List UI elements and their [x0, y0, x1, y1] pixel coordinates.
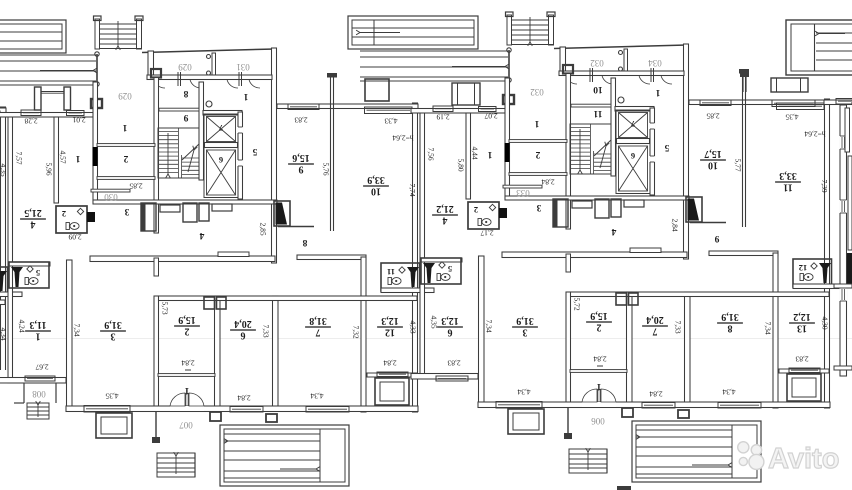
- svg-text:033: 033: [516, 188, 530, 198]
- wall rooms 3/2 lower: [154, 296, 159, 410]
- svg-text:029: 029: [178, 62, 192, 72]
- tambour top wall: [142, 49, 275, 53]
- lower wing top wall: [159, 296, 418, 301]
- room1big bottom / elevator top: [203, 111, 242, 116]
- svg-text:4,34: 4,34: [722, 387, 735, 396]
- svg-text:7: 7: [653, 326, 658, 337]
- svg-text:7,34: 7,34: [484, 319, 493, 332]
- bathroom 5: [421, 258, 461, 284]
- svg-text:3: 3: [124, 206, 129, 216]
- room 2 lower divider: [158, 374, 215, 377]
- big room walls: [709, 251, 778, 256]
- svg-text:15,6: 15,6: [292, 152, 310, 163]
- svg-text:6: 6: [448, 327, 453, 338]
- dark sink: [407, 267, 419, 287]
- svg-text:2,83: 2,83: [447, 358, 460, 367]
- svg-text:31,9: 31,9: [516, 315, 534, 326]
- window 2,84 (room 6): [230, 407, 263, 413]
- outdoor stair (top): [507, 15, 512, 45]
- hall pillar box: [563, 65, 573, 74]
- porch column base: [503, 95, 514, 104]
- porch posts and beam: [35, 87, 42, 110]
- svg-text:21,5: 21,5: [24, 207, 42, 218]
- svg-text:2,85: 2,85: [258, 222, 267, 235]
- svg-text:4,34: 4,34: [0, 327, 8, 340]
- svg-text:9: 9: [183, 112, 188, 122]
- svg-text:2,28: 2,28: [24, 116, 37, 125]
- loggia railing block (top): [0, 20, 66, 53]
- bathroom 11: [793, 259, 832, 287]
- right section wall: [413, 103, 418, 412]
- svg-text:3: 3: [523, 327, 528, 338]
- dark sink: [819, 263, 831, 283]
- elevator 7 shaft: [204, 114, 238, 144]
- svg-text:2: 2: [474, 205, 478, 215]
- outdoor stair (bottom): [157, 453, 195, 477]
- wall rooms 3/2 lower: [566, 292, 571, 406]
- svg-text:33,3: 33,3: [779, 170, 797, 181]
- module3 post with cap: [742, 77, 744, 92]
- svg-text:12: 12: [385, 327, 395, 338]
- svg-text:2,84: 2,84: [383, 358, 396, 367]
- wall rooms 2/6 lower: [215, 296, 221, 410]
- window 4,35 (room 3): [84, 406, 130, 413]
- svg-text:8: 8: [183, 88, 188, 98]
- svg-text:4,33: 4,33: [408, 320, 417, 333]
- module3 top wall: [824, 100, 852, 105]
- porch bases at ramp: [210, 412, 221, 421]
- big room walls: [297, 255, 366, 260]
- svg-text:2: 2: [535, 149, 540, 159]
- svg-text:2,83: 2,83: [294, 115, 307, 124]
- window 4,35 (room 3): [496, 402, 542, 409]
- hall left wall: [566, 74, 571, 230]
- vent box: [616, 293, 627, 305]
- svg-text:7,33: 7,33: [673, 320, 682, 333]
- svg-text:029: 029: [118, 91, 132, 101]
- svg-text:4,35: 4,35: [105, 391, 118, 400]
- bathroom 2: [56, 206, 87, 233]
- vent box: [204, 297, 215, 309]
- svg-text:4: 4: [31, 219, 36, 230]
- module3 left outer wall: [840, 105, 847, 376]
- svg-text:10: 10: [593, 84, 603, 94]
- loggia railing block (top): [348, 16, 478, 49]
- svg-text:032: 032: [530, 87, 544, 97]
- svg-text:007: 007: [179, 420, 193, 430]
- svg-text:2,01: 2,01: [72, 115, 85, 124]
- svg-text:4,33: 4,33: [384, 116, 397, 125]
- svg-text:5,77: 5,77: [733, 158, 742, 171]
- elevator right wall: [650, 108, 655, 195]
- svg-text:10: 10: [371, 186, 381, 197]
- svg-text:1: 1: [243, 91, 248, 101]
- svg-text:15,9: 15,9: [590, 310, 608, 321]
- svg-text:12,3: 12,3: [381, 315, 399, 326]
- storage row below corridor: [553, 199, 568, 227]
- module3 dark bath corner: [847, 253, 852, 284]
- module3 wall stubs: [834, 284, 852, 288]
- porch left wall: [96, 54, 98, 106]
- top wall (left rooms): [0, 113, 93, 118]
- window 2,67: [25, 376, 55, 381]
- svg-text:2: 2: [123, 153, 128, 163]
- svg-text:032: 032: [590, 58, 604, 68]
- wall rooms 6/7 lower: [273, 296, 279, 410]
- window 4,33 (balcony door): [777, 103, 825, 110]
- window 4,34 (room 7): [306, 407, 349, 413]
- svg-text:7,56: 7,56: [426, 147, 435, 160]
- tambour circles: [619, 51, 623, 55]
- storage row below corridor: [141, 203, 156, 231]
- entrance 007 doors: [170, 406, 204, 411]
- window 4,33 (balcony door): [365, 107, 413, 114]
- svg-text:1: 1: [184, 385, 189, 395]
- dark side loggia: [274, 201, 290, 226]
- svg-text:4: 4: [611, 226, 616, 236]
- svg-text:5,76: 5,76: [321, 162, 330, 175]
- svg-text:4: 4: [199, 230, 204, 240]
- lower wing top wall: [571, 292, 830, 297]
- window 2,83: [700, 100, 731, 106]
- svg-text:9: 9: [299, 164, 304, 175]
- bathroom 5: [9, 262, 49, 288]
- module3 loggia block top right: [786, 20, 852, 75]
- loggia room 12: [787, 374, 821, 401]
- svg-text:11,3: 11,3: [30, 319, 47, 330]
- column circles: [507, 48, 511, 52]
- svg-text:4: 4: [443, 215, 448, 226]
- svg-text:1: 1: [75, 153, 80, 163]
- svg-text:1: 1: [655, 87, 660, 97]
- top wall (right rooms): [277, 104, 418, 109]
- room 12 bottom: [0, 377, 5, 381]
- porch column base: [91, 99, 102, 108]
- window 2,28: [21, 110, 41, 116]
- svg-text:7,32: 7,32: [351, 325, 360, 338]
- svg-text:7,33: 7,33: [261, 324, 270, 337]
- svg-text:2: 2: [597, 322, 602, 333]
- wall rooms 8/6 right: [199, 82, 204, 180]
- wall rooms 1/3 lower: [67, 260, 73, 410]
- svg-text:5: 5: [448, 264, 452, 274]
- top wall (right rooms): [689, 100, 830, 105]
- outdoor stair (bottom): [569, 449, 607, 473]
- module3 porch pier: [771, 78, 808, 92]
- svg-text:33,9: 33,9: [367, 174, 385, 185]
- walkway direction arrow: [452, 66, 505, 68]
- outdoor stair 008: [27, 403, 49, 419]
- svg-text:7,34: 7,34: [763, 321, 772, 334]
- porch bases at ramp: [622, 408, 633, 417]
- svg-text:5,96: 5,96: [44, 162, 53, 175]
- inner stairs: [158, 128, 199, 178]
- svg-text:5,72: 5,72: [572, 297, 581, 310]
- svg-text:21,2: 21,2: [436, 203, 454, 214]
- svg-text:7,34: 7,34: [72, 323, 81, 336]
- svg-text:31,9: 31,9: [104, 319, 122, 330]
- balcony room 3: [96, 413, 132, 438]
- window 2,84 (room 6): [642, 403, 675, 409]
- wall rooms1-2 / hall: [93, 82, 98, 203]
- room 1 lower bottom wall: [411, 374, 478, 380]
- left edge cleanup: [0, 370, 8, 377]
- svg-text:Avito: Avito: [768, 443, 839, 475]
- window 2,83: [288, 104, 319, 110]
- porch posts and beam: [452, 83, 480, 105]
- tambour bottom wall with entrance doors: [147, 75, 272, 80]
- top wall (right rooms): [0, 108, 6, 113]
- svg-text:2: 2: [62, 209, 66, 219]
- window 2,01: [479, 107, 497, 112]
- lower wing top wall: [0, 300, 5, 305]
- svg-text:5: 5: [36, 268, 40, 278]
- dark sink: [0, 271, 7, 291]
- svg-text:9: 9: [714, 233, 719, 243]
- scan fold line: [0, 338, 852, 340]
- svg-text:5,80: 5,80: [456, 158, 465, 171]
- bathroom 11: [0, 267, 8, 295]
- wall rooms1-2 / hall: [505, 78, 510, 199]
- room 12 bottom: [367, 373, 417, 377]
- Avito watermark logo: [738, 442, 764, 470]
- svg-text:2,84: 2,84: [593, 354, 606, 363]
- hall right wall: [272, 48, 277, 263]
- thin partition post: [330, 77, 332, 231]
- svg-text:20,4: 20,4: [234, 318, 252, 329]
- bottom outer wall: [0, 410, 6, 416]
- svg-text:4,24: 4,24: [17, 319, 26, 332]
- svg-text:1: 1: [534, 118, 539, 128]
- svg-text:11: 11: [387, 267, 395, 277]
- svg-text:008: 008: [32, 389, 46, 399]
- column circles: [95, 52, 99, 56]
- tambour left wall: [148, 51, 154, 76]
- ramp: [220, 425, 349, 486]
- bottom outer wall: [66, 406, 418, 412]
- bathroom 11: [381, 263, 420, 291]
- entrance 007 doors: [582, 402, 616, 407]
- svg-text:4,30: 4,30: [820, 316, 829, 329]
- svg-text:10: 10: [708, 160, 718, 171]
- svg-text:1: 1: [36, 331, 41, 342]
- svg-text:034: 034: [648, 58, 662, 68]
- svg-text:4,35: 4,35: [0, 163, 8, 176]
- elevator 6 shaft: [204, 148, 238, 198]
- walkway pier: [365, 79, 389, 101]
- tambour left wall: [560, 47, 566, 72]
- svg-text:2,07: 2,07: [484, 111, 497, 120]
- right section wall: [825, 99, 830, 408]
- svg-text:4,34: 4,34: [310, 391, 323, 400]
- tambour circles: [207, 55, 211, 59]
- inner stairs: [570, 124, 611, 174]
- dark notch bottom: [617, 486, 631, 490]
- left outer wall: [420, 109, 425, 377]
- room 1 / room 2 dividers: [97, 144, 155, 147]
- svg-text:4,35: 4,35: [785, 112, 798, 121]
- elevator right wall: [238, 112, 243, 199]
- svg-text:2,84: 2,84: [670, 218, 679, 231]
- svg-text:7: 7: [316, 327, 321, 338]
- walkway to entrance: [0, 54, 96, 56]
- svg-text:3: 3: [536, 202, 541, 212]
- svg-text:15,7: 15,7: [704, 148, 722, 159]
- svg-text:12: 12: [799, 263, 808, 273]
- window 2,83 lower left: [436, 376, 468, 381]
- walkway direction arrow: [40, 70, 93, 72]
- thin partition post: [742, 73, 744, 227]
- wall rooms 2/6 lower: [627, 292, 633, 406]
- svg-text:031: 031: [236, 62, 250, 72]
- ramp: [632, 421, 761, 482]
- wall room-column left: [466, 113, 471, 199]
- svg-text:2,84: 2,84: [181, 358, 194, 367]
- svg-text:6: 6: [219, 155, 223, 165]
- svg-text:7,57: 7,57: [14, 151, 23, 164]
- svg-text:7,74: 7,74: [408, 183, 417, 196]
- svg-text:20,4: 20,4: [646, 314, 664, 325]
- svg-text:31,8: 31,8: [309, 315, 327, 326]
- svg-text:2,84: 2,84: [237, 393, 250, 402]
- svg-text:1: 1: [487, 149, 492, 159]
- window 2,01: [67, 111, 85, 116]
- svg-text:5,73: 5,73: [160, 301, 169, 314]
- waist walls: [90, 256, 275, 262]
- window 2,28: [433, 106, 453, 112]
- svg-text:1: 1: [122, 122, 127, 132]
- svg-text:13: 13: [797, 323, 807, 334]
- svg-text:4,44: 4,44: [470, 146, 479, 159]
- svg-text:h=2,64: h=2,64: [392, 133, 413, 142]
- porch left wall: [508, 50, 510, 102]
- divider room 8/6: [571, 104, 611, 107]
- wall rooms 8/6 right: [611, 78, 616, 176]
- svg-text:h=2,64: h=2,64: [804, 129, 825, 138]
- svg-text:2,84: 2,84: [649, 389, 662, 398]
- bottom outer wall: [478, 402, 830, 408]
- module3 right edge bits: [848, 156, 852, 250]
- svg-text:7,39: 7,39: [820, 179, 829, 192]
- top wall (left rooms): [411, 109, 505, 114]
- porch 008: [23, 383, 25, 403]
- elevator divider: [205, 143, 238, 148]
- svg-text:8: 8: [302, 237, 307, 247]
- svg-text:11: 11: [783, 182, 792, 193]
- dark side loggia: [686, 197, 702, 222]
- outdoor stair (top): [95, 19, 100, 49]
- wall rooms 1/3 lower: [479, 256, 485, 406]
- svg-text:5: 5: [252, 146, 257, 156]
- svg-text:030: 030: [104, 192, 118, 202]
- svg-text:12,3: 12,3: [441, 315, 459, 326]
- room1big bottom / elevator top: [615, 107, 654, 112]
- elevator 6 shaft: [616, 144, 650, 194]
- room 1 / room 2 dividers: [509, 140, 567, 143]
- svg-text:006: 006: [591, 416, 605, 426]
- tambour divider: [624, 49, 628, 72]
- svg-text:2,85: 2,85: [706, 111, 719, 120]
- left outer wall: [8, 113, 13, 381]
- room 1 lower bottom wall: [0, 378, 66, 384]
- tambour top wall: [554, 45, 687, 49]
- right section wall: [1, 107, 6, 416]
- window 4,34 (room 7): [718, 403, 761, 409]
- svg-text:2,09: 2,09: [68, 232, 81, 241]
- divider room 8/6: [159, 108, 199, 111]
- module3 porch sill: [772, 100, 815, 107]
- svg-text:4,34: 4,34: [517, 387, 530, 396]
- svg-text:5: 5: [664, 142, 669, 152]
- tambour divider: [212, 53, 216, 76]
- wall rooms 6/7 lower: [685, 292, 691, 406]
- svg-text:11: 11: [593, 108, 602, 118]
- hall left wall: [154, 78, 159, 234]
- corridor bottom wall: [93, 200, 277, 204]
- svg-text:2,85: 2,85: [129, 181, 142, 190]
- svg-text:2,17: 2,17: [480, 228, 493, 237]
- walkway arrow (block): [360, 32, 400, 34]
- balcony room 3: [508, 409, 544, 434]
- svg-text:2,84: 2,84: [541, 177, 554, 186]
- svg-text:4,57: 4,57: [58, 150, 67, 163]
- elevator divider: [617, 139, 650, 144]
- svg-text:12,2: 12,2: [793, 311, 811, 322]
- elevator 7 shaft: [616, 110, 650, 140]
- waist walls: [502, 252, 687, 258]
- svg-text:6: 6: [241, 330, 246, 341]
- room 2 lower divider: [570, 370, 627, 373]
- svg-text:2,19: 2,19: [436, 112, 449, 121]
- svg-text:2: 2: [185, 326, 190, 337]
- hall pillar box: [151, 69, 161, 78]
- svg-text:6: 6: [631, 151, 635, 161]
- tambour bottom wall with entrance doors: [559, 71, 684, 76]
- wall room-column left: [54, 117, 59, 203]
- svg-text:15,9: 15,9: [178, 314, 196, 325]
- svg-text:4,35: 4,35: [429, 315, 438, 328]
- svg-text:2,83: 2,83: [795, 354, 808, 363]
- svg-text:8: 8: [728, 323, 733, 334]
- bathroom 2: [468, 202, 499, 229]
- walkway to entrance: [360, 50, 508, 52]
- svg-text:31,9: 31,9: [721, 311, 739, 322]
- room 12 bottom: [779, 369, 829, 373]
- svg-text:1: 1: [596, 381, 601, 391]
- svg-text:2,67: 2,67: [35, 362, 48, 371]
- hall right wall: [684, 44, 689, 259]
- loggia room 12: [375, 378, 409, 405]
- corridor bottom wall: [505, 196, 689, 200]
- svg-text:3: 3: [111, 331, 116, 342]
